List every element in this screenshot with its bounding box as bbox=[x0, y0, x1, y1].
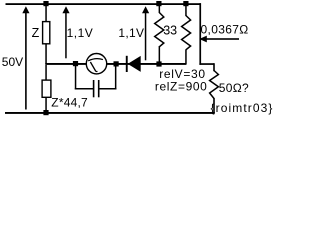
svg-text:Z: Z bbox=[32, 26, 40, 40]
svg-text:33: 33 bbox=[163, 24, 177, 38]
svg-text:1,1V: 1,1V bbox=[118, 26, 144, 40]
svg-text:Z*44,7: Z*44,7 bbox=[51, 96, 88, 110]
svg-text:1,1V: 1,1V bbox=[67, 26, 94, 40]
svg-text:0,0367Ω: 0,0367Ω bbox=[201, 22, 249, 36]
svg-text:{roimtr03}: {roimtr03} bbox=[211, 101, 274, 115]
svg-text:50V: 50V bbox=[2, 55, 23, 69]
svg-text:relZ=900: relZ=900 bbox=[155, 79, 208, 93]
svg-text:50Ω?: 50Ω? bbox=[219, 81, 249, 95]
